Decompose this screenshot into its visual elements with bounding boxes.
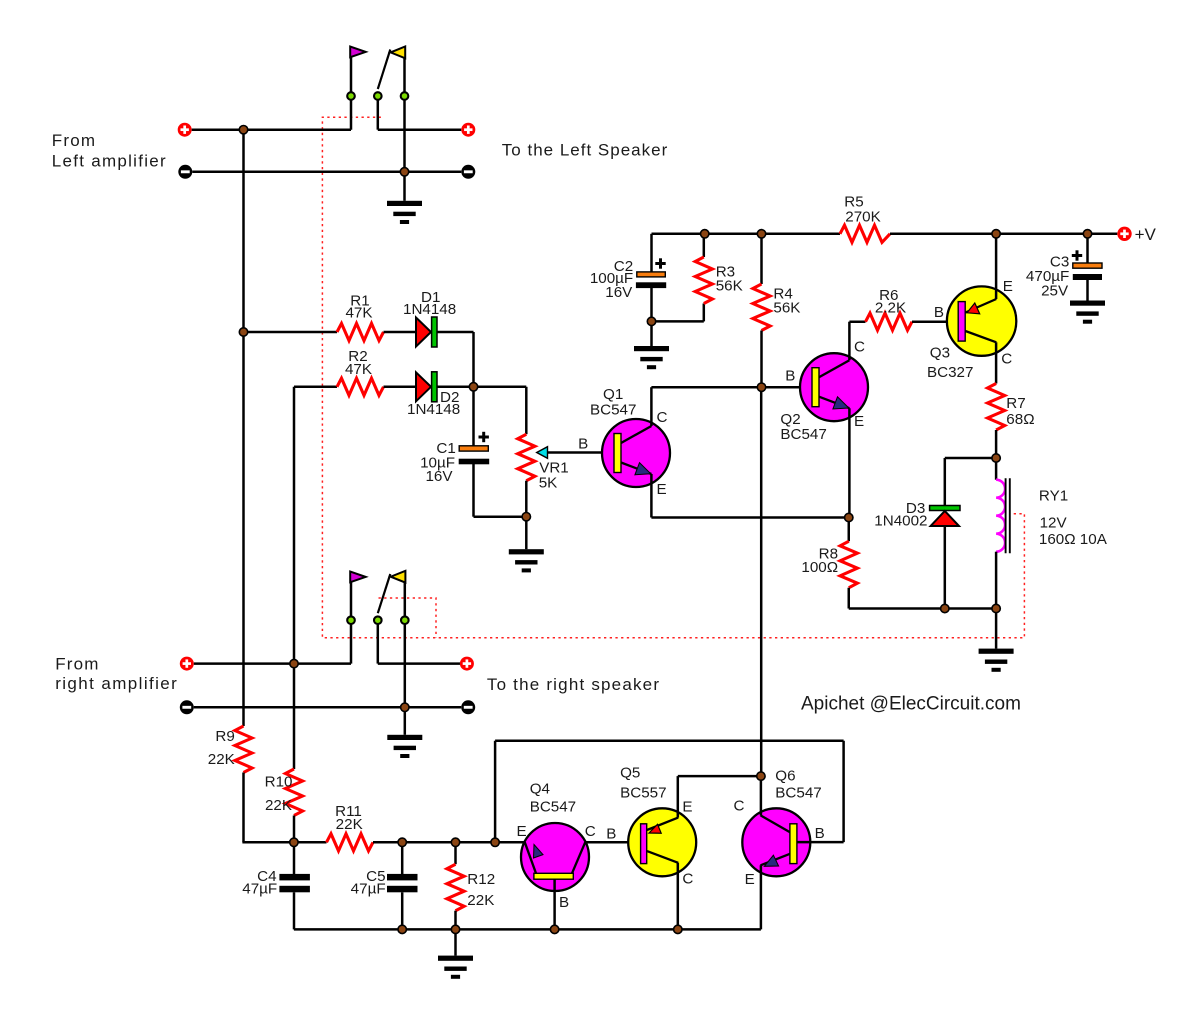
svg-text:BC547: BC547 — [780, 426, 826, 443]
svg-text:47µF: 47µF — [351, 881, 386, 898]
switch SW2 flag (yellow) — [391, 571, 406, 583]
svg-text:R7: R7 — [1006, 395, 1025, 412]
transistor Q3 BC327 — [947, 286, 1016, 355]
node Q5/Q6 junction — [757, 772, 765, 780]
svg-text:B: B — [559, 894, 569, 911]
svg-text:B: B — [934, 304, 944, 321]
wire right speaker + — [378, 662, 460, 665]
wire vertical from R2 down to right amp + — [293, 387, 296, 769]
wire box right vertical (Q6 base) — [842, 741, 845, 842]
switch SW1 contact 2 — [374, 92, 382, 100]
relay mechanical linkage dotted line — [322, 117, 1024, 638]
svg-text:1N4148: 1N4148 — [407, 401, 460, 418]
terminal left amp - — [178, 165, 192, 179]
svg-text:C: C — [682, 871, 693, 888]
switch SW2 flag (magenta) — [350, 572, 366, 583]
svg-text:22K: 22K — [467, 892, 494, 909]
wire +V top rail — [652, 233, 841, 236]
wire right amp + rail — [194, 662, 351, 665]
node D1/D2 junction — [469, 383, 477, 391]
svg-text:25V: 25V — [1041, 283, 1069, 300]
svg-text:E: E — [1003, 278, 1013, 295]
wire VR1 wiper to Q1 base — [548, 451, 615, 454]
wire R2 lead left — [294, 386, 337, 389]
transistor Q5 BC557 — [628, 808, 696, 876]
wire left speaker + — [378, 128, 462, 131]
wire Q1 emitter down — [650, 474, 653, 518]
wire Q1 emitter to R8 node — [651, 516, 848, 519]
svg-text:BC327: BC327 — [927, 364, 973, 381]
wire Q2 collector up to R6 — [848, 322, 851, 361]
node Q5 collector bottom — [674, 925, 682, 933]
svg-text:E: E — [854, 413, 864, 430]
wire junction to VR1 top — [474, 386, 527, 389]
node C5 top — [398, 838, 406, 846]
terminal right amp + — [180, 657, 194, 671]
svg-text:22K: 22K — [336, 816, 363, 833]
svg-text:B: B — [606, 825, 616, 842]
wire R8/D3/relay bottom rail — [849, 607, 996, 610]
switch SW2 post 1 — [350, 582, 353, 663]
svg-text:R9: R9 — [215, 728, 234, 745]
wire R6 to Q3 base — [912, 320, 958, 323]
wire Q3 emitter to +V rail — [995, 234, 998, 299]
terminal right speaker + — [460, 657, 474, 671]
resistor R9 — [235, 726, 252, 773]
svg-text:C: C — [734, 798, 745, 815]
switch SW2 post 3 — [404, 583, 407, 708]
svg-text:+V: +V — [1135, 225, 1157, 244]
wire Q6 base right — [797, 841, 844, 844]
svg-text:Q1: Q1 — [603, 386, 623, 403]
wire Q4 base down — [553, 879, 556, 929]
resistor R8 — [848, 518, 851, 542]
svg-text:B: B — [815, 825, 825, 842]
diode D1 — [416, 318, 431, 347]
resistor R1 — [337, 323, 384, 340]
wire R1 to D1 — [384, 331, 418, 334]
switch SW2 contact 3 — [401, 616, 409, 624]
ground left speaker — [403, 172, 406, 201]
terminal right amp - — [180, 700, 194, 714]
svg-text:56K: 56K — [716, 277, 743, 294]
svg-text:BC547: BC547 — [530, 799, 576, 816]
svg-text:To the right speaker: To the right speaker — [487, 675, 660, 694]
svg-text:RY1: RY1 — [1039, 488, 1068, 505]
svg-text:E: E — [657, 481, 667, 498]
resistor R6 — [866, 313, 913, 330]
node R12 top — [451, 838, 459, 846]
svg-text:B: B — [578, 436, 588, 453]
svg-text:C: C — [854, 338, 865, 355]
svg-text:C: C — [585, 823, 596, 840]
svg-text:R12: R12 — [467, 871, 495, 888]
svg-text:R10: R10 — [265, 774, 293, 791]
svg-text:BC547: BC547 — [775, 785, 821, 802]
capacitor C5 — [401, 842, 404, 874]
svg-text:68Ω: 68Ω — [1006, 411, 1034, 428]
wire Q3 collector down — [995, 342, 998, 383]
node C2 bottom — [647, 317, 655, 325]
node R7 bottom / relay top — [992, 454, 1000, 462]
svg-text:E: E — [745, 871, 755, 888]
terminal right speaker - — [461, 700, 475, 714]
transistor Q2 BC547 — [762, 386, 813, 389]
svg-text:E: E — [682, 799, 692, 816]
node box corner junction — [491, 838, 499, 846]
svg-text:2.2K: 2.2K — [875, 300, 906, 317]
svg-text:47µF: 47µF — [242, 881, 277, 898]
wire R2 to D2 — [384, 386, 418, 389]
svg-text:270K: 270K — [845, 209, 880, 226]
svg-text:47K: 47K — [345, 305, 372, 322]
switch SW1 post 3 — [403, 58, 406, 172]
node D3 bottom — [941, 604, 949, 612]
resistor R5 — [840, 225, 890, 242]
wire Q5 emitter up — [677, 776, 680, 818]
switch SW2 lever — [378, 574, 391, 613]
terminal left amp + — [178, 123, 192, 137]
svg-text:47K: 47K — [345, 361, 372, 378]
transistor Q6 BC547 — [742, 808, 810, 876]
wire right amp - rail — [194, 706, 461, 709]
svg-text:C: C — [657, 409, 668, 426]
svg-text:Q6: Q6 — [775, 768, 795, 785]
svg-text:1N4148: 1N4148 — [403, 301, 456, 318]
wire top rail right of R5 — [890, 233, 1117, 236]
resistor R7 — [988, 384, 1005, 431]
node R1 tap — [239, 328, 247, 336]
wire relay coil bottom — [995, 552, 998, 609]
node right speaker ground junction — [401, 703, 409, 711]
terminal +V — [1117, 227, 1131, 241]
wire bottom distribution rail — [242, 841, 326, 844]
node R3 top — [701, 230, 709, 238]
capacitor C2 — [650, 234, 653, 272]
node C5 bottom — [398, 925, 406, 933]
switch SW2 post 2 — [377, 620, 380, 663]
node Q2 base junction — [757, 383, 765, 391]
svg-text:C: C — [1001, 351, 1012, 368]
diode D3 1N4002 — [930, 506, 960, 511]
svg-text:right amplifier: right amplifier — [55, 674, 178, 693]
wire R9 to bottom rail — [242, 773, 245, 843]
svg-text:160Ω 10A: 160Ω 10A — [1039, 531, 1108, 548]
capacitor C3 — [1086, 234, 1089, 263]
svg-text:12V: 12V — [1040, 515, 1068, 532]
wire Q6 emitter down — [760, 865, 763, 929]
svg-text:16V: 16V — [425, 468, 453, 485]
switch SW2 contact 2 — [374, 616, 382, 624]
resistor R2 — [337, 378, 384, 395]
wire Q1 collector to R4 node — [651, 386, 761, 389]
wire box left vertical — [494, 741, 497, 843]
wire Q5 emitter to Q6 collector node — [678, 775, 761, 778]
terminal left speaker + — [461, 123, 475, 137]
wire D3 bottom — [944, 526, 947, 609]
node relay bottom — [992, 604, 1000, 612]
node Q2 emitter / R8 — [845, 513, 853, 521]
wire D2 to junction — [437, 386, 474, 389]
wire vertical from left amp + down to R1/R9 — [242, 130, 245, 726]
node Q3 emitter rail — [992, 230, 1000, 238]
wire R11 to Q4 emitter — [373, 841, 525, 844]
relay RY1 coil — [995, 458, 998, 480]
svg-text:56K: 56K — [773, 299, 800, 316]
resistor R4 — [760, 234, 763, 284]
node left amp + junction — [239, 126, 247, 134]
node R12 bottom — [451, 925, 459, 933]
wire left amp - rail — [192, 171, 461, 174]
svg-text:1N4002: 1N4002 — [874, 512, 927, 529]
svg-text:16V: 16V — [605, 284, 633, 301]
wire Q4 collector to Q5 base — [585, 841, 640, 844]
node Q4 base bottom — [550, 925, 558, 933]
wire bottom ground rail — [294, 928, 761, 931]
wire Q1 collector up — [650, 387, 653, 426]
resistor R10 — [285, 769, 302, 816]
svg-text:Left amplifier: Left amplifier — [52, 151, 167, 170]
svg-text:From: From — [55, 655, 99, 674]
svg-text:22K: 22K — [265, 797, 292, 814]
switch SW1 contact 3 — [401, 92, 409, 100]
wire left amp + rail — [192, 128, 351, 131]
resistor R3 — [703, 234, 706, 257]
potentiometer VR1 — [518, 434, 535, 481]
svg-text:Apichet @ElecCircuit.com: Apichet @ElecCircuit.com — [801, 694, 1021, 715]
svg-text:To the Left Speaker: To the Left Speaker — [502, 141, 668, 160]
wire Q5 collector down — [677, 863, 680, 930]
svg-text:100Ω: 100Ω — [801, 559, 838, 576]
relay RY1 core — [1005, 478, 1007, 553]
node VR1 bottom junction — [522, 513, 530, 521]
svg-text:22K: 22K — [208, 751, 235, 768]
resistor R11 — [327, 834, 374, 851]
switch SW1 flag (yellow) — [391, 47, 406, 59]
ground C3 — [1070, 301, 1105, 306]
switch SW1 post 1 — [350, 57, 353, 130]
svg-text:BC547: BC547 — [590, 402, 636, 419]
node R4 top — [757, 230, 765, 238]
wire relay top to D3 top — [945, 457, 996, 460]
capacitor C1 — [472, 387, 475, 446]
ground right speaker — [404, 707, 407, 735]
node C3 top — [1083, 230, 1091, 238]
switch SW1 flag (magenta) — [350, 47, 366, 58]
ground relay — [995, 609, 998, 649]
ground VR1 — [525, 517, 528, 550]
wire D1 to junction — [437, 331, 474, 334]
switch SW1 lever — [378, 50, 391, 90]
terminal left speaker - — [461, 165, 475, 179]
wire R1 lead left — [244, 331, 338, 334]
switch SW1 contact 1 — [347, 92, 355, 100]
svg-text:Q3: Q3 — [930, 345, 950, 362]
transistor Q1 BC547 — [602, 419, 670, 487]
ground C2 — [650, 321, 653, 346]
node right amp + junction — [290, 659, 298, 667]
svg-text:From: From — [52, 131, 96, 150]
switch SW1 post 2 — [377, 96, 380, 130]
capacitor C4 — [293, 842, 296, 874]
transistor Q4 BC547 — [495, 841, 525, 844]
resistor R12 — [454, 842, 457, 864]
wire box top horizontal — [495, 739, 843, 742]
svg-text:BC557: BC557 — [620, 785, 666, 802]
wire C2 to R3 bottom — [652, 320, 704, 323]
diode D2 — [416, 372, 431, 401]
wire R10 to bottom rail — [293, 816, 296, 843]
wire Q2 emitter down — [848, 408, 851, 517]
switch SW2 contact 1 — [347, 616, 355, 624]
svg-text:5K: 5K — [539, 475, 558, 492]
wire long vertical to Q5/Q6 — [760, 387, 763, 776]
svg-text:Q5: Q5 — [620, 765, 640, 782]
ground R12 — [454, 929, 457, 955]
svg-text:B: B — [785, 368, 795, 385]
svg-text:Q4: Q4 — [530, 781, 550, 798]
svg-text:E: E — [516, 823, 526, 840]
wire Q6 collector up — [760, 776, 763, 815]
node R10 bottom — [290, 838, 298, 846]
node left speaker ground junction — [400, 168, 408, 176]
